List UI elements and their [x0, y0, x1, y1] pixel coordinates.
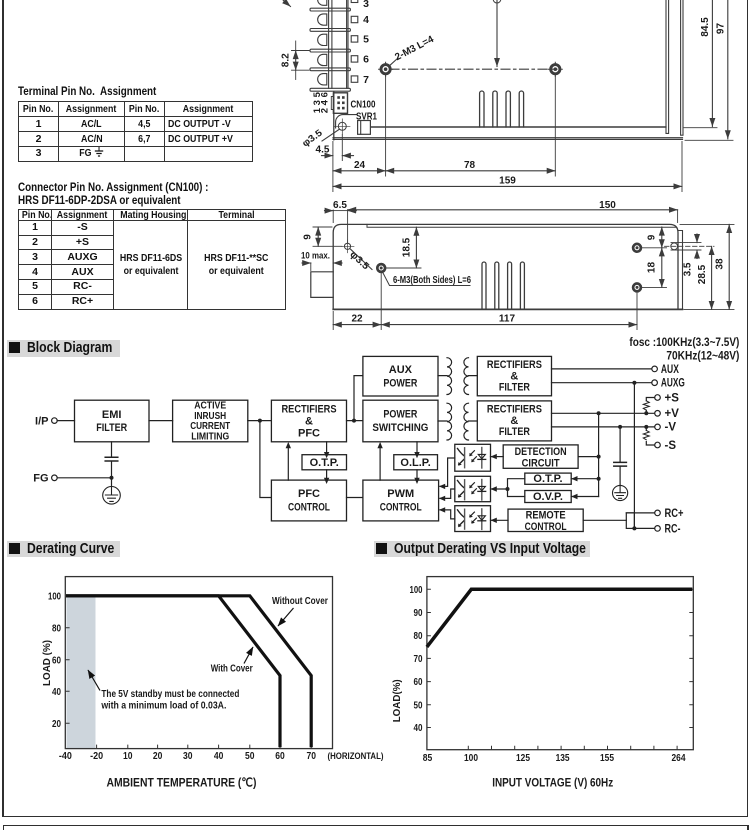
svg-text:O.T.P.: O.T.P. [310, 457, 339, 469]
svg-text:6-M3(Both Sides) L=6: 6-M3(Both Sides) L=6 [393, 275, 471, 286]
svg-text:(HORIZONTAL): (HORIZONTAL) [328, 751, 384, 762]
svg-text:125: 125 [516, 753, 530, 764]
svg-text:70KHz(12~48V): 70KHz(12~48V) [666, 351, 739, 363]
svg-text:O.T.P.: O.T.P. [533, 473, 562, 485]
svg-text:97: 97 [716, 23, 727, 35]
svg-text:POWER: POWER [383, 409, 417, 421]
svg-text:40: 40 [414, 723, 423, 734]
svg-text:78: 78 [464, 160, 476, 171]
svg-text:Without Cover: Without Cover [272, 596, 328, 607]
svg-text:DETECTION: DETECTION [515, 446, 567, 458]
svg-text:50: 50 [245, 751, 255, 762]
svg-text:AUX: AUX [661, 364, 679, 376]
svg-text:CIRCUIT: CIRCUIT [522, 457, 560, 469]
svg-text:3.5: 3.5 [683, 262, 694, 276]
svg-text:80: 80 [414, 631, 423, 642]
svg-text:5: 5 [363, 33, 369, 45]
svg-text:&: & [305, 415, 313, 427]
svg-text:CONTROL: CONTROL [288, 502, 330, 514]
svg-text:SWITCHING: SWITCHING [372, 422, 428, 434]
svg-text:80: 80 [52, 623, 61, 634]
svg-text:135: 135 [556, 753, 570, 764]
svg-text:150: 150 [599, 200, 616, 211]
svg-text:22: 22 [351, 314, 363, 325]
svg-text:100: 100 [48, 591, 61, 602]
svg-text:AMBIENT TEMPERATURE (℃): AMBIENT TEMPERATURE (℃) [107, 776, 257, 790]
svg-text:-40: -40 [59, 751, 72, 762]
svg-text:with a minimum load of 0.03A.: with a minimum load of 0.03A. [101, 701, 227, 712]
svg-text:PWM: PWM [387, 488, 414, 500]
svg-text:&: & [510, 370, 518, 382]
svg-text:9: 9 [647, 234, 658, 240]
svg-text:155: 155 [600, 753, 614, 764]
svg-text:FILTER: FILTER [499, 426, 530, 438]
svg-text:LOAD (%): LOAD (%) [41, 640, 53, 686]
svg-text:28.5: 28.5 [697, 264, 708, 284]
svg-text:-S: -S [665, 440, 677, 452]
svg-text:CN100: CN100 [351, 100, 376, 111]
svg-text:60: 60 [414, 677, 423, 688]
svg-text:POWER: POWER [383, 378, 417, 390]
svg-text:159: 159 [499, 175, 516, 186]
svg-text:EMI: EMI [102, 409, 122, 421]
svg-text:20: 20 [153, 751, 163, 762]
svg-text:CONTROL: CONTROL [380, 502, 422, 514]
svg-text:+S: +S [665, 392, 680, 404]
svg-text:FILTER: FILTER [499, 382, 530, 394]
svg-text:117: 117 [499, 314, 516, 325]
svg-text:7: 7 [363, 74, 369, 86]
svg-text:fosc :100KHz(3.3~7.5V): fosc :100KHz(3.3~7.5V) [629, 337, 739, 349]
svg-text:PFC: PFC [298, 427, 320, 439]
svg-text:60: 60 [52, 655, 61, 666]
svg-text:60: 60 [275, 751, 285, 762]
svg-text:6: 6 [363, 54, 369, 66]
svg-text:The 5V standby must be connect: The 5V standby must be connected [101, 689, 239, 700]
svg-text:70: 70 [306, 751, 316, 762]
svg-text:φ3.5: φ3.5 [347, 249, 371, 273]
svg-text:8.2: 8.2 [281, 53, 292, 67]
svg-text:40: 40 [214, 751, 224, 762]
svg-text:I/P: I/P [35, 415, 48, 427]
svg-text:RECTIFIERS: RECTIFIERS [282, 403, 337, 415]
svg-text:6.5: 6.5 [333, 200, 347, 211]
svg-text:9: 9 [303, 234, 314, 240]
svg-text:20: 20 [52, 719, 61, 730]
svg-text:50: 50 [414, 700, 423, 711]
svg-text:RECTIFIERS: RECTIFIERS [487, 359, 542, 371]
svg-text:-20: -20 [90, 751, 103, 762]
svg-text:90: 90 [414, 608, 423, 619]
svg-text:PFC: PFC [298, 488, 320, 500]
svg-text:10: 10 [123, 751, 133, 762]
svg-text:4: 4 [363, 14, 369, 26]
svg-text:3: 3 [363, 0, 369, 10]
svg-text:O.V.P.: O.V.P. [533, 491, 563, 503]
svg-text:10 max.: 10 max. [301, 251, 330, 262]
svg-text:100: 100 [464, 753, 478, 764]
svg-text:30: 30 [183, 751, 193, 762]
svg-text:70: 70 [414, 654, 423, 665]
svg-text:40: 40 [52, 687, 61, 698]
svg-text:1 3 5: 1 3 5 [312, 91, 323, 113]
svg-text:RECTIFIERS: RECTIFIERS [487, 404, 542, 416]
svg-text:LIMITING: LIMITING [191, 432, 229, 443]
svg-text:AUX: AUX [389, 364, 413, 376]
svg-text:100: 100 [410, 585, 423, 596]
svg-text:4.5: 4.5 [316, 144, 330, 155]
svg-text:84.5: 84.5 [700, 17, 711, 37]
svg-text:38: 38 [715, 258, 726, 270]
svg-text:18: 18 [647, 262, 658, 274]
svg-text:+V: +V [665, 408, 680, 420]
svg-text:LOAD(%): LOAD(%) [391, 679, 403, 722]
svg-text:With Cover: With Cover [211, 664, 253, 675]
svg-text:FG: FG [33, 473, 48, 485]
svg-text:FILTER: FILTER [96, 422, 127, 434]
svg-text:24: 24 [354, 160, 366, 171]
svg-text:18.5: 18.5 [402, 237, 413, 257]
svg-text:85: 85 [423, 753, 433, 764]
svg-text:REMOTE: REMOTE [526, 510, 566, 522]
svg-text:2-M3 L=4: 2-M3 L=4 [393, 34, 436, 63]
svg-text:RC-: RC- [665, 523, 681, 535]
svg-text:RC+: RC+ [665, 508, 684, 520]
svg-text:O.L.P.: O.L.P. [400, 457, 430, 469]
svg-text:CONTROL: CONTROL [525, 521, 567, 533]
svg-text:-V: -V [665, 422, 677, 434]
svg-text:&: & [510, 415, 518, 427]
svg-text:INPUT VOLTAGE (V) 60Hz: INPUT VOLTAGE (V) 60Hz [492, 776, 613, 790]
svg-text:264: 264 [672, 753, 686, 764]
svg-text:AUXG: AUXG [661, 378, 685, 390]
